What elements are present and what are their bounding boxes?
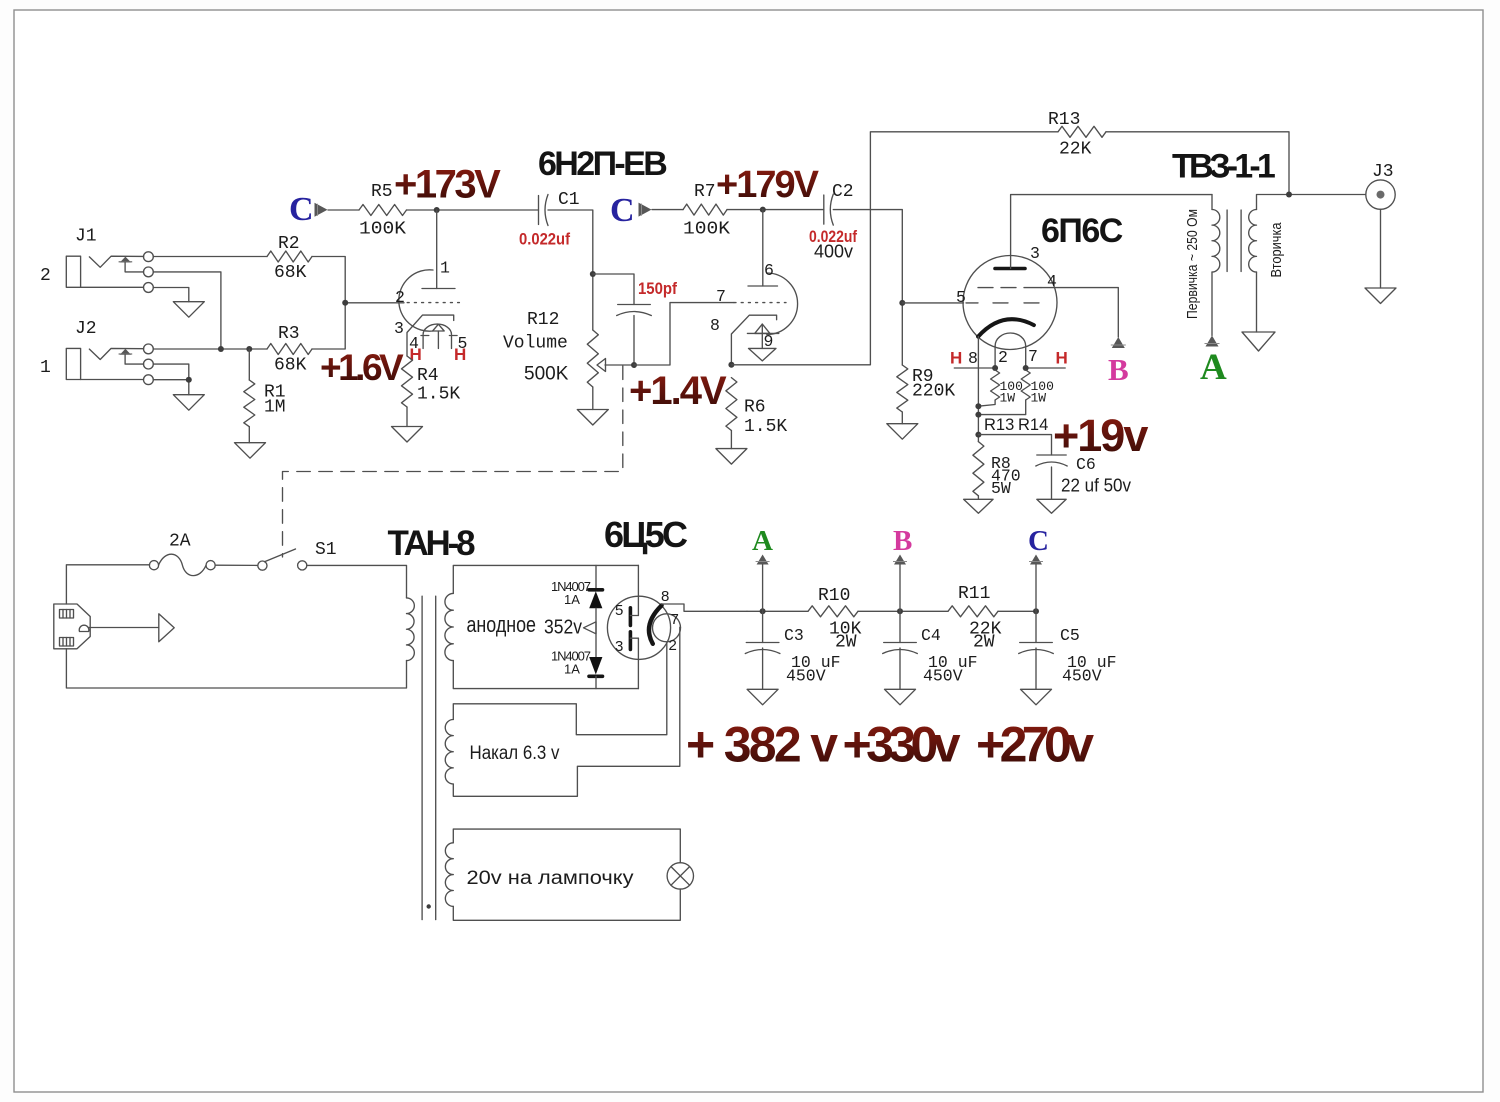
junction node A	[760, 608, 766, 614]
wire anode node to plate pin 6	[762, 210, 764, 286]
svg-text:68K: 68K	[274, 263, 307, 283]
wire node C to R5	[328, 209, 359, 211]
diode D2 1N4007	[551, 649, 603, 677]
pentode plate pin 3	[995, 267, 1025, 271]
svg-text:H: H	[1056, 349, 1068, 368]
node A	[752, 525, 773, 611]
TAH-8 core	[421, 596, 423, 919]
wire grid node to pin 2	[345, 302, 404, 304]
diode chain wire	[595, 565, 597, 589]
node C input connector	[289, 191, 328, 228]
wire R13 to output node	[1106, 132, 1289, 195]
svg-text:400v: 400v	[814, 242, 853, 262]
wire pin 8 to B+ rail	[662, 604, 747, 611]
rectifier heater circle	[653, 614, 681, 642]
svg-text:A: A	[752, 525, 773, 557]
junction J2 ground	[186, 377, 192, 383]
svg-text:1: 1	[440, 259, 450, 278]
triode V1a grid (dotted)	[407, 302, 459, 304]
wire J1 sleeve to ground	[81, 286, 144, 288]
triode V1a plate	[422, 288, 455, 290]
capacitor C1 0.022uf	[519, 190, 580, 249]
ground at secondary	[1242, 332, 1275, 351]
ground at C4	[885, 689, 916, 705]
rectifier plate pin 3	[615, 632, 638, 689]
junction R12 top / 150pf	[590, 271, 596, 277]
svg-text:220K: 220K	[912, 382, 955, 402]
wire C2 to R9	[833, 210, 902, 365]
resistor R4 1.5K	[402, 356, 461, 427]
svg-text:R14: R14	[1018, 416, 1048, 434]
pentode screen grid (dashed)	[978, 287, 1041, 289]
svg-text:8: 8	[661, 588, 669, 605]
svg-text:+ 382 v: + 382 v	[686, 717, 838, 773]
svg-text:C4: C4	[921, 626, 941, 645]
svg-text:Volume: Volume	[503, 334, 568, 354]
ground at C6	[1037, 499, 1066, 513]
svg-text:C2: C2	[832, 182, 854, 202]
lamp winding 20v	[445, 829, 680, 920]
capacitor C5 10uF 450V	[1019, 611, 1117, 689]
svg-text:2W: 2W	[835, 633, 857, 653]
junction node C	[1033, 608, 1039, 614]
svg-text:20v на лампочку: 20v на лампочку	[467, 868, 635, 889]
ground at R6	[716, 449, 747, 465]
svg-text:R13: R13	[984, 416, 1014, 434]
svg-text:R3: R3	[278, 324, 300, 344]
svg-text:1.5K: 1.5K	[744, 417, 787, 437]
svg-text:+179V: +179V	[716, 164, 820, 206]
wire pin 3 to output transformer	[1011, 195, 1212, 269]
svg-text:+19v: +19v	[1053, 410, 1148, 461]
ground at R12	[577, 410, 608, 426]
svg-text:B: B	[893, 525, 912, 557]
svg-text:J1: J1	[75, 227, 97, 247]
switch S1	[258, 540, 337, 570]
svg-text:150pf: 150pf	[638, 279, 677, 298]
shield dashed outline	[283, 366, 623, 557]
rectifier plate pin 5	[615, 565, 638, 625]
wire J1 tip to R2	[153, 256, 267, 258]
capacitor C6 22uf 50v	[1036, 455, 1131, 496]
svg-text:1W: 1W	[1031, 391, 1047, 406]
pentode cathode	[978, 319, 1034, 336]
wire J2 sleeve/ring to ground	[81, 379, 144, 381]
svg-text:C5: C5	[1060, 626, 1080, 645]
wire plug top to fuse	[66, 565, 149, 604]
junction anode V1a	[434, 207, 440, 213]
triode V1b envelope	[767, 273, 798, 335]
resistor R8 470 5W	[973, 442, 1021, 500]
wire between diodes	[595, 608, 597, 657]
svg-text:2: 2	[669, 637, 677, 654]
wire R2 to grid node	[312, 257, 345, 303]
svg-text:7: 7	[1028, 347, 1038, 366]
svg-text:1A: 1A	[564, 662, 580, 677]
wire fuse to switch	[215, 564, 258, 566]
svg-text:2: 2	[395, 288, 405, 307]
resistor R7 100K	[683, 182, 730, 240]
wire pin 7 to heater winding	[453, 627, 680, 796]
svg-text:R4: R4	[417, 366, 439, 386]
svg-text:352v: 352v	[544, 617, 582, 639]
node A (B+ supply)	[1200, 336, 1227, 389]
heater winding Накал 6.3v	[445, 720, 560, 785]
wire 150pf to wiper line	[633, 316, 635, 366]
svg-text:450V: 450V	[923, 667, 963, 686]
wire secondary bottom to ground	[1256, 272, 1258, 332]
ground at J3	[1365, 288, 1396, 304]
svg-text:C3: C3	[784, 626, 804, 645]
capacitor C4 10uF 450V	[883, 611, 978, 689]
wire primary bottom loop	[66, 649, 406, 688]
potentiometer R12 Volume 500K	[503, 310, 634, 410]
svg-text:22K: 22K	[1059, 140, 1092, 160]
svg-text:0.022uf: 0.022uf	[519, 230, 570, 249]
svg-text:1: 1	[40, 358, 51, 378]
resistor R6 1.5K	[726, 378, 788, 449]
svg-text:S1: S1	[315, 540, 337, 560]
junction feedback tap	[1286, 192, 1292, 198]
svg-text:2: 2	[998, 348, 1008, 367]
svg-text:5: 5	[615, 602, 623, 619]
svg-text:C: C	[1028, 525, 1049, 557]
svg-text:+1.6V: +1.6V	[320, 347, 404, 388]
wire pin 4 to node B	[1041, 288, 1118, 337]
svg-text:2A: 2A	[169, 532, 191, 552]
wire switch to TAH-8 primary	[307, 565, 407, 598]
diode D1 1N4007	[551, 579, 603, 608]
mains plug	[54, 604, 90, 649]
fuse 2A	[149, 532, 215, 576]
capacitor C3 10uF 450V	[745, 611, 840, 689]
wire diode to bottom rail	[595, 676, 597, 688]
triode V1b plate	[748, 285, 778, 287]
svg-text:+173V: +173V	[394, 163, 501, 207]
junction R1 top	[246, 346, 252, 352]
svg-text:6Н2П-ЕВ: 6Н2П-ЕВ	[538, 145, 667, 183]
junction pin 2	[992, 365, 998, 371]
svg-text:450V: 450V	[786, 667, 826, 686]
resistor R14 100 1W	[978, 370, 1054, 434]
svg-text:анодное: анодное	[467, 612, 537, 637]
junction J1 ring / J2 tip	[218, 346, 224, 352]
wire R3 to grid node	[312, 303, 345, 349]
svg-text:A: A	[1200, 347, 1227, 388]
svg-text:6Ц5С: 6Ц5С	[604, 514, 688, 555]
triode V1a envelope	[399, 270, 433, 331]
resistor R11 22K 2W	[948, 584, 1002, 653]
svg-text:Накал 6.3 v: Накал 6.3 v	[470, 743, 560, 764]
svg-text:+270v: +270v	[976, 717, 1094, 773]
svg-text:8: 8	[710, 316, 720, 335]
svg-text:ТАН-8: ТАН-8	[388, 524, 476, 563]
wire pin 5 grid tap	[902, 302, 963, 304]
junction R13 bottom	[975, 403, 981, 409]
svg-text:500K: 500K	[524, 364, 569, 385]
resistor R13 22K (feedback)	[1048, 110, 1106, 160]
wire R10 to node B	[858, 610, 948, 612]
heater wires H	[950, 349, 1068, 369]
ground at C3	[747, 689, 778, 705]
junction V1b cathode node	[728, 362, 734, 368]
svg-text:ТВЗ-1-1: ТВЗ-1-1	[1172, 148, 1275, 186]
svg-text:4: 4	[1047, 272, 1057, 291]
svg-text:1A: 1A	[564, 592, 580, 607]
wire junction to 150pf	[593, 274, 634, 305]
svg-text:1M: 1M	[264, 398, 286, 418]
svg-text:R7: R7	[694, 182, 716, 202]
svg-text:6П6С: 6П6С	[1041, 212, 1123, 250]
resistor R1 1M	[244, 349, 286, 443]
wire R5 to C1 (anode node)	[407, 209, 539, 211]
svg-text:+1.4V: +1.4V	[629, 369, 727, 413]
anode winding 352v	[445, 565, 639, 688]
wire R11 to node C	[998, 610, 1036, 612]
wire secondary top to J3	[1257, 195, 1366, 210]
wire pin 2 to heater winding	[453, 643, 667, 735]
resistor R3 68K	[267, 324, 312, 376]
svg-text:7: 7	[671, 611, 679, 628]
TB3 core	[1226, 210, 1228, 272]
svg-text:100K: 100K	[683, 220, 730, 240]
svg-text:C6: C6	[1076, 455, 1096, 474]
junction grid node	[342, 300, 348, 306]
svg-text:5: 5	[956, 288, 966, 307]
ground at J2	[173, 395, 204, 411]
svg-text:1W: 1W	[1000, 391, 1016, 406]
input jack J2	[40, 319, 153, 385]
svg-text:R11: R11	[958, 584, 990, 604]
svg-text:R12: R12	[527, 310, 559, 330]
svg-text:R6: R6	[744, 398, 766, 418]
junction anode V1b	[760, 207, 766, 213]
wire J2 tip to R3	[153, 348, 267, 350]
wire node C to R7	[652, 209, 683, 211]
svg-text:3: 3	[394, 319, 404, 338]
node C	[1028, 525, 1049, 611]
junction pin5 grid tap	[899, 300, 905, 306]
svg-text:68K: 68K	[274, 356, 307, 376]
node B	[893, 525, 912, 611]
svg-text:C1: C1	[558, 190, 580, 210]
svg-text:B: B	[1108, 352, 1129, 387]
svg-text:R13: R13	[1048, 110, 1080, 130]
wire plug to earth	[89, 627, 159, 629]
resistor R9 220K	[897, 365, 956, 424]
wire J3 to ground	[1380, 209, 1382, 288]
svg-text:2: 2	[40, 266, 51, 286]
resistor R13 100 1W	[978, 370, 1023, 434]
svg-text:100K: 100K	[359, 220, 406, 240]
junction 150pf/wiper	[631, 362, 637, 368]
svg-text:R10: R10	[818, 586, 850, 606]
svg-text:J3: J3	[1372, 162, 1394, 182]
output jack J3	[1366, 162, 1395, 209]
svg-text:J2: J2	[75, 319, 97, 339]
phasing dot	[427, 904, 431, 908]
svg-text:H: H	[454, 345, 466, 364]
triode V1b grid (dotted)	[734, 302, 786, 304]
ground at C5	[1021, 689, 1052, 705]
ground at J1	[173, 302, 204, 318]
svg-text:8: 8	[968, 349, 978, 368]
capacitor C2 0.022uf 400v	[809, 182, 857, 262]
wire J1 ring to J2 tip line	[153, 272, 221, 349]
wire to C6	[978, 435, 1051, 455]
svg-text:H: H	[950, 349, 962, 368]
svg-text:7: 7	[716, 287, 726, 306]
rectifier cathode arc	[649, 605, 662, 643]
wire R7 to C2	[727, 209, 824, 211]
junction pin 7	[1023, 365, 1029, 371]
wire cathode pin 8 down	[977, 337, 979, 442]
352v arrow	[584, 622, 597, 634]
wire anode node down to plate	[436, 210, 438, 289]
TB3 secondary winding	[1249, 210, 1285, 278]
B+ rail	[747, 610, 808, 612]
ground at R8	[964, 499, 994, 513]
svg-text:5W: 5W	[991, 479, 1011, 498]
ground at R1	[235, 443, 266, 459]
rectifier 6Ц5С envelope	[607, 596, 670, 659]
wire wiper to V1b grid	[634, 303, 734, 365]
wire C6 to ground	[1051, 467, 1053, 499]
earth symbol	[159, 614, 174, 642]
node C connector (to V1b)	[610, 192, 652, 229]
ground at R4	[392, 427, 423, 443]
pentode 6П6С envelope	[963, 256, 1057, 350]
ground at pin 9	[749, 348, 777, 361]
triode V1a heater	[421, 324, 457, 348]
svg-text:2W: 2W	[973, 633, 995, 653]
junction C6 branch	[975, 432, 981, 438]
capacitor 150pf	[617, 279, 678, 316]
svg-text:R2: R2	[278, 234, 300, 254]
junction node B	[897, 608, 903, 614]
TAH-8 primary winding	[407, 598, 415, 661]
ground at R9	[887, 424, 918, 440]
svg-text:1.5K: 1.5K	[417, 385, 460, 405]
lamp	[667, 863, 693, 889]
svg-text:Первичка ~ 250 Ом: Первичка ~ 250 Ом	[1184, 209, 1201, 319]
TB3 primary winding	[1184, 195, 1220, 319]
feedback wire from output to V1b cathode	[731, 132, 1058, 365]
svg-text:3: 3	[1030, 244, 1040, 263]
svg-text:3: 3	[615, 638, 623, 655]
input jack J1	[40, 227, 153, 293]
triode V1b cathode	[731, 315, 776, 365]
svg-text:22 uf 50v: 22 uf 50v	[1061, 476, 1131, 496]
pentode heater loop	[995, 333, 1026, 368]
junction R14 bottom	[975, 412, 981, 418]
pentode control grid (dashed)	[966, 302, 1039, 304]
triode V1a cathode	[407, 315, 454, 356]
svg-text:R5: R5	[371, 182, 393, 202]
pin 9 shield symbol	[747, 324, 778, 351]
wire C1 to R12 top	[548, 210, 593, 330]
resistor R2 68K	[267, 234, 312, 283]
svg-text:Вторичка: Вторичка	[1268, 222, 1285, 278]
svg-text:C: C	[610, 192, 635, 229]
svg-text:6: 6	[764, 261, 774, 280]
resistor R5 100K	[359, 182, 407, 240]
node B (screen supply)	[1108, 337, 1129, 387]
svg-text:C: C	[289, 191, 314, 228]
wire primary bottom to node A	[1211, 272, 1213, 336]
resistor R10 10K 2W	[808, 586, 862, 653]
svg-text:+330v: +330v	[843, 717, 961, 773]
svg-text:450V: 450V	[1062, 667, 1102, 686]
